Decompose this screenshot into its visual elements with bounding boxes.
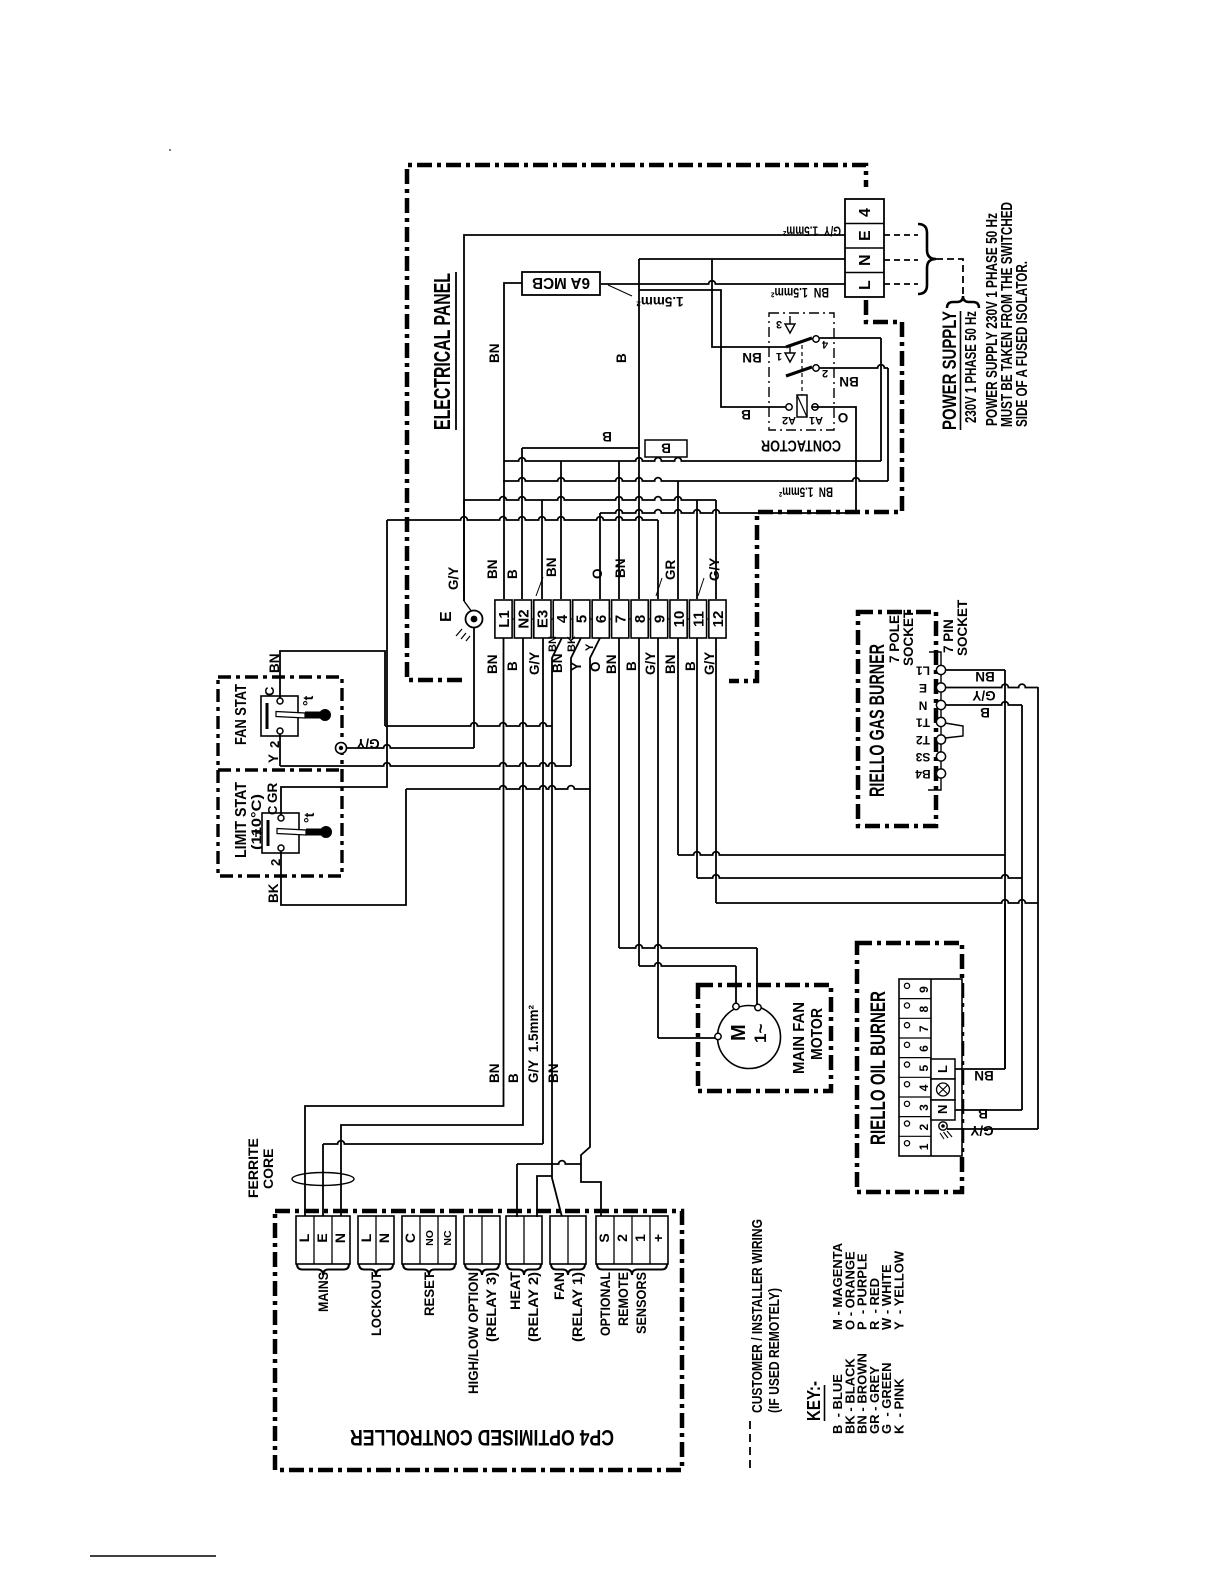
svg-text:9: 9 xyxy=(917,986,931,993)
cp4 MAINS group brace xyxy=(297,1264,349,1275)
svg-text:C: C xyxy=(402,1233,418,1243)
boxed label B xyxy=(645,440,687,457)
oil burner earth symbol xyxy=(939,1122,947,1130)
cp4 OPT group brace xyxy=(597,1264,667,1275)
limit stat lever xyxy=(277,829,306,836)
wire drop to terminal E3 xyxy=(541,500,543,599)
wire G/Y from terminal E xyxy=(464,235,845,601)
fan stat bus to terminal 4 wire xyxy=(385,723,552,726)
oil burner cell 7 divider xyxy=(899,1017,931,1019)
neutral vertical wire B xyxy=(638,259,640,599)
underline for POWER SUPPLY xyxy=(960,311,962,430)
svg-text:FERRITE: FERRITE xyxy=(245,1138,261,1198)
svg-text:L1: L1 xyxy=(916,664,930,678)
svg-text:HIGH/LOW OPTION: HIGH/LOW OPTION xyxy=(465,1272,481,1394)
svg-text:N: N xyxy=(857,254,874,266)
wire terminal 11 to gas burner xyxy=(696,638,698,878)
fan stat Y bus to terminal 5 wire xyxy=(280,763,571,766)
svg-text:B: B xyxy=(978,1106,988,1121)
contactor dashed outline xyxy=(769,313,834,430)
wire L terminal to MCB (BN 1.5mm2) xyxy=(601,281,845,284)
oil burner pin 5 xyxy=(904,1062,909,1067)
cp4 LOCKOUT terminal cells xyxy=(358,1216,394,1264)
svg-text:BN: BN xyxy=(546,1064,561,1084)
dashed lead from terminal L xyxy=(884,283,918,285)
cp4 RESET group brace xyxy=(403,1264,455,1275)
svg-text:BN: BN xyxy=(839,374,859,389)
gas burner neutral B xyxy=(697,875,1022,878)
svg-text:A1: A1 xyxy=(809,414,823,426)
svg-text:BN: BN xyxy=(663,655,678,675)
wire drop to terminal 11 xyxy=(696,500,698,599)
svg-text:SENSORS: SENSORS xyxy=(633,1272,649,1334)
svg-text:BN: BN xyxy=(604,655,619,675)
oil burner cell 6 divider xyxy=(899,1037,931,1039)
terminal block cell dividers xyxy=(845,223,884,225)
gas burner pin S3 xyxy=(936,752,945,761)
cp4 HIGHLOW group brace xyxy=(465,1264,499,1275)
stats dashed enclosure xyxy=(218,677,342,876)
svg-text:7: 7 xyxy=(917,1025,931,1032)
neutral link wire B xyxy=(522,447,639,449)
gas pin L1 wire xyxy=(946,669,1005,671)
svg-text:9: 9 xyxy=(651,615,668,623)
svg-text:C: C xyxy=(262,686,277,696)
svg-text:G/Y: G/Y xyxy=(707,558,722,581)
svg-text:BN: BN xyxy=(742,350,762,365)
svg-text:G/Y: G/Y xyxy=(972,688,995,703)
riello gas burner dashed enclosure xyxy=(858,612,936,826)
svg-text:1: 1 xyxy=(632,1234,648,1242)
limit stat probe xyxy=(306,829,323,836)
earth wire below symbol xyxy=(473,628,475,748)
svg-text:K - PINK: K - PINK xyxy=(892,1378,907,1434)
svg-text:N: N xyxy=(376,1233,392,1243)
bus wire y2 (BN to terminal 10) xyxy=(503,478,888,481)
motor earth wire G/Y xyxy=(658,1037,717,1039)
oil burner cell 8 divider xyxy=(899,998,931,1000)
svg-text:M: M xyxy=(728,1024,750,1041)
oil burner pin 2 xyxy=(904,1121,909,1126)
circuit breaker 6A MCB box xyxy=(522,272,600,295)
wire drop to terminal N2 xyxy=(521,448,523,599)
oil burner pin 9 xyxy=(904,983,909,988)
svg-text:G/Y: G/Y xyxy=(527,652,542,675)
gas burner pin N xyxy=(936,700,945,709)
svg-text:10: 10 xyxy=(671,611,688,628)
dashed lead from terminal E xyxy=(884,234,918,236)
svg-text:3: 3 xyxy=(917,1104,931,1111)
svg-text:CUSTOMER / INSTALLER WIRING: CUSTOMER / INSTALLER WIRING xyxy=(749,1219,766,1413)
terminal block L N E 4 outline xyxy=(845,199,884,297)
wire terminal 10 to gas burner xyxy=(677,638,679,855)
bus wire y1 (MCB out to contact 4) xyxy=(504,458,881,461)
wire terminal 6 with jog xyxy=(581,638,601,1217)
svg-text:B: B xyxy=(505,661,520,671)
cp4 HEAT group brace xyxy=(507,1264,541,1275)
contact 3 arrow xyxy=(785,316,795,333)
svg-text:G/Y 1.5mm²: G/Y 1.5mm² xyxy=(783,224,841,239)
oil burner earth wire xyxy=(947,1128,1038,1130)
dashed wire from brace to power supply note xyxy=(936,259,963,294)
svg-text:BN: BN xyxy=(547,636,559,652)
oil burner pin 1 xyxy=(904,1141,909,1146)
svg-text:E: E xyxy=(314,1233,330,1242)
cp4 FAN group brace xyxy=(551,1264,585,1275)
svg-text:G/Y: G/Y xyxy=(970,1123,993,1138)
svg-text:7 POLE: 7 POLE xyxy=(887,615,902,663)
terminal 11 box xyxy=(689,600,706,638)
svg-text:SOCKET: SOCKET xyxy=(901,609,916,666)
svg-text:BN: BN xyxy=(487,344,502,364)
svg-text:(RELAY 1): (RELAY 1) xyxy=(569,1272,585,1342)
gas socket spine xyxy=(928,652,941,790)
oil burner pin 7 xyxy=(904,1023,909,1028)
svg-text:3: 3 xyxy=(776,318,782,330)
cp4 HEAT terminal cells xyxy=(506,1216,542,1264)
svg-text:2: 2 xyxy=(917,1124,931,1131)
svg-text:POWER SUPPLY: POWER SUPPLY xyxy=(940,311,961,430)
wire terminal 12 to gas burner xyxy=(715,638,717,903)
svg-text:CONTACTOR: CONTACTOR xyxy=(761,436,841,453)
main fan motor dashed enclosure xyxy=(698,985,831,1091)
fan stat C wire up and over xyxy=(280,651,385,726)
svg-text:E: E xyxy=(919,681,927,695)
wire terminal L1 down to controller xyxy=(305,638,504,1217)
svg-text:G/Y: G/Y xyxy=(446,567,461,590)
svg-text:FAN STAT: FAN STAT xyxy=(233,684,250,745)
svg-text:(IF USED REMOTELY): (IF USED REMOTELY) xyxy=(766,1288,783,1413)
wire terminal 4 with jog xyxy=(552,638,562,1217)
motor circle xyxy=(718,1006,781,1069)
svg-text:T2: T2 xyxy=(916,733,930,747)
wire drop to terminal 10 xyxy=(677,481,679,599)
wire contact 2 output xyxy=(819,365,888,368)
oil burner pin 6 xyxy=(904,1042,909,1047)
gas burner pin T1 xyxy=(936,717,945,726)
wire terminal 5 with jog xyxy=(571,638,581,766)
gas burner pin B4 xyxy=(936,769,945,778)
underline KEY xyxy=(824,1385,826,1421)
svg-text:°t: °t xyxy=(301,812,317,823)
fan stat earth symbol xyxy=(336,743,347,754)
terminal E3 box xyxy=(534,600,551,638)
gas burner pin L1 xyxy=(936,665,945,674)
earth wire into symbol xyxy=(463,500,465,601)
svg-text:E3: E3 xyxy=(535,610,552,628)
wire coil A1 orange xyxy=(812,407,856,513)
oil burner N wire xyxy=(955,1109,1022,1111)
oil burner L wire xyxy=(955,1068,1005,1070)
cp4 FAN terminal cells xyxy=(550,1216,586,1264)
oil burner cell 3 divider xyxy=(899,1096,931,1098)
svg-text:(RELAY 2): (RELAY 2) xyxy=(525,1272,541,1342)
svg-text:1: 1 xyxy=(917,1143,931,1150)
fan stat probe xyxy=(305,712,322,719)
coil terminal A2 xyxy=(786,404,792,410)
svg-text:4: 4 xyxy=(857,208,874,217)
limit stat GR wire xyxy=(281,520,387,815)
svg-text:B: B xyxy=(683,661,698,671)
svg-text:°t: °t xyxy=(300,695,316,706)
heat relay 2 wire xyxy=(537,1176,552,1217)
limit stat BK wire xyxy=(281,789,406,905)
wire drop to terminal 12 xyxy=(715,500,717,599)
svg-text:KEY:-: KEY:- xyxy=(804,1381,824,1421)
svg-text:E: E xyxy=(857,230,874,241)
svg-text:1.5mm²: 1.5mm² xyxy=(636,294,684,309)
svg-text:NO: NO xyxy=(424,1230,436,1246)
stats enclosure divider xyxy=(218,768,342,771)
leader above 11 xyxy=(698,578,704,596)
svg-text:L: L xyxy=(358,1233,374,1242)
svg-text:L: L xyxy=(857,280,874,290)
oil burner pin 8 xyxy=(904,1003,909,1008)
wire N terminal to neutral drop xyxy=(639,258,845,260)
svg-text:S: S xyxy=(596,1233,612,1242)
svg-text:O: O xyxy=(590,568,605,579)
svg-text:BN 1.5mm²: BN 1.5mm² xyxy=(771,285,829,300)
cp4 OPT terminal cells xyxy=(596,1216,668,1264)
wire terminal 9 earth to motor xyxy=(657,638,659,1038)
svg-text:GR: GR xyxy=(265,782,280,803)
svg-text:4: 4 xyxy=(554,614,571,623)
svg-text:6: 6 xyxy=(593,615,610,623)
brace above POWER SUPPLY title xyxy=(947,296,979,308)
limit stat terminal C xyxy=(278,815,284,821)
fan stat lever xyxy=(276,712,305,719)
svg-text:CORE: CORE xyxy=(260,1149,276,1189)
svg-text:G/Y 1.5mm²: G/Y 1.5mm² xyxy=(526,1004,541,1083)
wire terminal N2 down to controller xyxy=(341,638,523,1217)
main earth symbol xyxy=(466,611,483,628)
svg-text:BN: BN xyxy=(544,558,559,578)
svg-text:8: 8 xyxy=(917,1006,931,1013)
svg-text:OPTIONAL: OPTIONAL xyxy=(597,1272,613,1336)
oil burner cell 5 divider xyxy=(899,1057,931,1059)
terminal 8 box xyxy=(631,600,648,638)
svg-text:Y: Y xyxy=(266,754,281,763)
customer wiring dashed sample xyxy=(749,1421,751,1470)
svg-text:5: 5 xyxy=(917,1065,931,1072)
terminal strip connecting line xyxy=(512,618,514,620)
svg-text:BK: BK xyxy=(566,636,578,652)
wire drop to terminal 9 xyxy=(657,520,659,599)
terminal N2 box xyxy=(514,600,531,638)
fan stat terminal C xyxy=(277,698,283,704)
svg-text:BN: BN xyxy=(974,1068,994,1083)
motor terminal a xyxy=(733,1003,739,1009)
svg-text:NC: NC xyxy=(442,1230,454,1246)
svg-text:REMOTE: REMOTE xyxy=(615,1272,631,1326)
oil burner cell 1 divider xyxy=(899,1135,931,1137)
svg-text:FAN: FAN xyxy=(551,1272,567,1300)
terminal L1 box xyxy=(495,600,512,638)
gas pin N wire xyxy=(946,702,1022,705)
gas burner pin E xyxy=(936,683,945,692)
svg-text:N2: N2 xyxy=(515,609,532,628)
wire terminal E3 down to controller xyxy=(323,1141,543,1144)
terminal 7 box xyxy=(612,600,629,638)
svg-text:B: B xyxy=(661,441,671,456)
svg-text:ELECTRICAL PANEL: ELECTRICAL PANEL xyxy=(429,273,455,430)
wire drop to terminal L1 xyxy=(503,461,505,599)
riello oil burner dashed enclosure xyxy=(857,943,962,1192)
terminal 12 box xyxy=(709,600,726,638)
svg-text:B4: B4 xyxy=(915,767,931,781)
svg-text:MOTOR: MOTOR xyxy=(809,1008,826,1060)
svg-text:S3: S3 xyxy=(915,750,930,764)
heat relay 1 wire xyxy=(516,1164,518,1217)
contact 1-2 bar xyxy=(786,367,812,376)
terminal 4 box xyxy=(553,600,570,638)
contact 3-4 bar xyxy=(786,338,812,347)
gas pin E wire xyxy=(946,684,1038,687)
svg-text:6: 6 xyxy=(917,1045,931,1052)
gas burner earth G/Y xyxy=(716,900,1038,903)
oil burner terminal block outline xyxy=(899,979,962,1156)
svg-text:B: B xyxy=(980,705,990,720)
wire drop to terminal 7 xyxy=(618,461,620,599)
fan stat bimetal bar xyxy=(266,703,269,729)
ferrite core ellipse xyxy=(292,1173,354,1186)
svg-text:HEAT: HEAT xyxy=(507,1272,523,1310)
svg-text:C: C xyxy=(265,805,280,815)
oil burner N box xyxy=(931,1100,955,1120)
fan stat Y wire down xyxy=(279,734,281,766)
svg-text:L: L xyxy=(296,1233,312,1242)
cp4 HIGHLOW terminal cells xyxy=(464,1216,500,1264)
svg-text:A2: A2 xyxy=(782,414,796,426)
svg-text:SOCKET: SOCKET xyxy=(955,599,970,656)
svg-text:BN: BN xyxy=(485,560,500,580)
wire drop to terminal 4 xyxy=(560,461,562,599)
svg-text:BK: BK xyxy=(266,883,281,903)
svg-text:4: 4 xyxy=(917,1084,931,1091)
brace for power supply feed xyxy=(918,224,936,294)
svg-text:LOCKOUT: LOCKOUT xyxy=(368,1272,384,1336)
svg-text:BN 1.5mm²: BN 1.5mm² xyxy=(779,485,833,500)
limit stat terminal 2 xyxy=(278,845,284,851)
oil burner cell 4 divider xyxy=(899,1076,931,1078)
motor terminal c xyxy=(715,1033,721,1039)
gas burner T1-T2 jumper xyxy=(945,723,963,738)
svg-text:E: E xyxy=(438,611,455,622)
bus wire y4 orange (A1 to terminal 6) xyxy=(600,510,856,513)
svg-text:(RELAY 3): (RELAY 3) xyxy=(483,1272,499,1342)
svg-text:Y - YELLOW: Y - YELLOW xyxy=(892,1250,907,1330)
bus wire y5 grey (limit stat to terminal 9) xyxy=(387,517,658,520)
footer rule xyxy=(90,1555,216,1557)
branch from N wire to contactor xyxy=(712,259,786,347)
wire drop to terminal 6 xyxy=(599,513,601,599)
contact 4 terminal xyxy=(813,336,819,342)
svg-text:11: 11 xyxy=(690,611,707,627)
svg-text:2: 2 xyxy=(614,1234,630,1242)
oil burner pin 3 xyxy=(904,1101,909,1106)
gas burner feed BN xyxy=(678,852,1005,855)
svg-text:B: B xyxy=(741,407,751,422)
dashed mechanical link xyxy=(801,345,803,395)
svg-text:RIELLO OIL BURNER: RIELLO OIL BURNER xyxy=(867,991,890,1145)
coil terminal A1 xyxy=(812,404,818,410)
svg-text:T1: T1 xyxy=(916,716,930,730)
fan stat earth bus wire xyxy=(347,745,475,748)
electrical panel enclosure border (dash-dot) xyxy=(407,165,866,680)
earth symbol hatching xyxy=(456,629,470,641)
oil burner terminal divider xyxy=(930,979,932,1156)
contact 1 arrow xyxy=(785,345,795,362)
svg-text:L: L xyxy=(935,1065,950,1073)
oil burner L box xyxy=(931,1059,955,1079)
svg-text:N: N xyxy=(919,699,928,713)
svg-text:RIELLO GAS BURNER: RIELLO GAS BURNER xyxy=(866,644,889,797)
svg-text:BN: BN xyxy=(485,655,500,675)
motor neutral wire B xyxy=(639,963,736,966)
leader line for 1.5mm2 label xyxy=(608,285,632,296)
cp4 LOCKOUT group brace xyxy=(359,1264,393,1275)
contactor coil xyxy=(797,395,807,417)
svg-text:7 PIN: 7 PIN xyxy=(941,619,956,653)
dashed lead from terminal N xyxy=(884,259,918,261)
motor terminal b xyxy=(755,1004,761,1010)
limit stat bimetal bar xyxy=(267,820,270,846)
svg-text:MAINS: MAINS xyxy=(315,1272,331,1312)
svg-text:GR: GR xyxy=(663,559,678,580)
motor feed wire BN xyxy=(619,945,757,948)
electrical panel border right side segment xyxy=(729,300,902,681)
cp4 controller dashed enclosure xyxy=(275,1211,682,1470)
tiny mark top left xyxy=(169,149,171,151)
svg-text:5: 5 xyxy=(574,615,591,623)
wire terminal 8 neutral to motor xyxy=(638,638,640,966)
underline for ELECTRICAL PANEL label xyxy=(455,272,457,430)
wire coil A2 to neutral xyxy=(639,290,786,407)
terminal 5 box xyxy=(573,600,590,638)
oil burner lamp box xyxy=(931,1079,955,1100)
svg-text:N: N xyxy=(332,1233,348,1243)
leader above E3 xyxy=(536,577,543,596)
fan stat body xyxy=(261,696,298,736)
cp4 RESET terminal cells xyxy=(402,1216,456,1264)
svg-text:12: 12 xyxy=(710,611,727,628)
svg-text:4: 4 xyxy=(821,338,828,350)
contact 2 terminal xyxy=(813,365,819,371)
svg-text:B: B xyxy=(602,429,612,444)
svg-text:+: + xyxy=(650,1234,666,1242)
terminal 9 box xyxy=(651,600,668,638)
oil burner pin 4 xyxy=(904,1082,909,1087)
svg-text:1: 1 xyxy=(776,350,782,362)
wire terminal 7 to motor xyxy=(618,638,620,948)
leader above 9 xyxy=(656,578,662,596)
gas burner pin T2 xyxy=(936,735,945,744)
svg-text:230V 1 PHASE 50 Hz: 230V 1 PHASE 50 Hz xyxy=(963,311,980,423)
svg-text:CP4 OPTIMISED CONTROLLER: CP4 OPTIMISED CONTROLLER xyxy=(350,1425,614,1450)
svg-text:7: 7 xyxy=(613,615,630,623)
svg-text:BN: BN xyxy=(613,559,628,579)
svg-text:G/Y: G/Y xyxy=(702,652,717,675)
svg-text:B: B xyxy=(506,1073,521,1083)
svg-text:BN: BN xyxy=(975,669,995,684)
svg-text:SIDE OF A FUSED ISOLATOR.: SIDE OF A FUSED ISOLATOR. xyxy=(1014,261,1031,427)
svg-text:L1: L1 xyxy=(496,610,513,628)
svg-text:6A MCB: 6A MCB xyxy=(532,274,590,291)
fan stat terminal 2 xyxy=(277,728,283,734)
svg-text:O: O xyxy=(838,410,849,425)
svg-text:B: B xyxy=(505,569,520,579)
svg-text:MAIN FAN: MAIN FAN xyxy=(791,1002,808,1074)
